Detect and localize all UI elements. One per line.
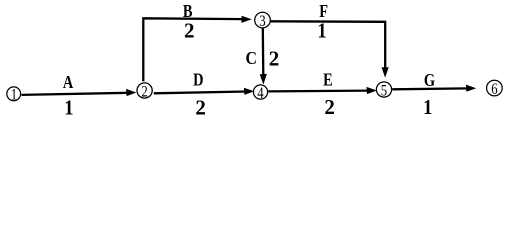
svg-text:5: 5 (381, 82, 387, 100)
label C value 2 (269, 46, 280, 70)
node 4 digit (257, 85, 264, 103)
svg-text:1: 1 (317, 20, 326, 43)
wire E arrow shaft ④→⑤ (268, 89, 369, 92)
svg-text:A: A (63, 71, 74, 92)
node 2 digit (141, 83, 147, 101)
label D (193, 69, 203, 90)
label A (63, 71, 74, 92)
wire B path ② up and right to ③ (143, 18, 244, 81)
svg-text:2: 2 (269, 46, 280, 70)
arrowhead B (242, 16, 252, 23)
arrowhead C (260, 74, 267, 85)
node 6 digit (491, 81, 497, 99)
node 1 digit (11, 86, 17, 104)
node 6 circle (487, 80, 503, 96)
wire C arrow shaft ③↓④ (262, 28, 265, 76)
node 5 circle (376, 82, 391, 97)
arrowhead F (382, 67, 389, 77)
svg-text:F: F (319, 0, 328, 21)
label E (323, 69, 333, 90)
svg-text:C: C (245, 48, 256, 68)
label F value 1 (317, 20, 326, 43)
node 2 circle (137, 83, 152, 98)
label G value 1 (423, 96, 432, 119)
svg-text:2: 2 (184, 19, 195, 43)
label F (319, 0, 328, 21)
svg-text:1: 1 (423, 96, 432, 119)
svg-text:2: 2 (141, 83, 147, 101)
node 3 circle (255, 12, 271, 28)
label B value 2 (184, 19, 195, 43)
label A value 1 (64, 96, 73, 119)
arrowhead D (244, 88, 254, 95)
svg-text:G: G (424, 69, 435, 90)
label C (245, 48, 256, 68)
wire G arrow shaft ⑤→⑥ (392, 87, 468, 90)
svg-text:2: 2 (324, 95, 335, 119)
node 3 digit (259, 13, 265, 31)
label E value 2 (324, 95, 335, 119)
svg-text:4: 4 (257, 85, 264, 103)
node 4 circle (253, 85, 267, 99)
arrowhead A (126, 89, 136, 96)
svg-text:3: 3 (259, 13, 265, 31)
svg-text:2: 2 (195, 95, 206, 119)
svg-text:E: E (323, 69, 333, 90)
node 5 digit (381, 82, 387, 100)
wire A arrow shaft ①→② (22, 93, 129, 95)
arrowhead E (367, 87, 377, 94)
svg-text:6: 6 (491, 81, 497, 99)
arrowhead G (466, 85, 476, 92)
svg-text:1: 1 (64, 96, 73, 119)
label B (183, 0, 193, 21)
label G (424, 69, 435, 90)
svg-text:D: D (193, 69, 203, 90)
wire D arrow shaft ②→④ (154, 92, 247, 94)
wire F path ③ right then down to ⑤ (271, 21, 386, 69)
node 1 circle (7, 87, 21, 101)
svg-text:1: 1 (11, 86, 17, 104)
label D value 2 (195, 95, 206, 119)
